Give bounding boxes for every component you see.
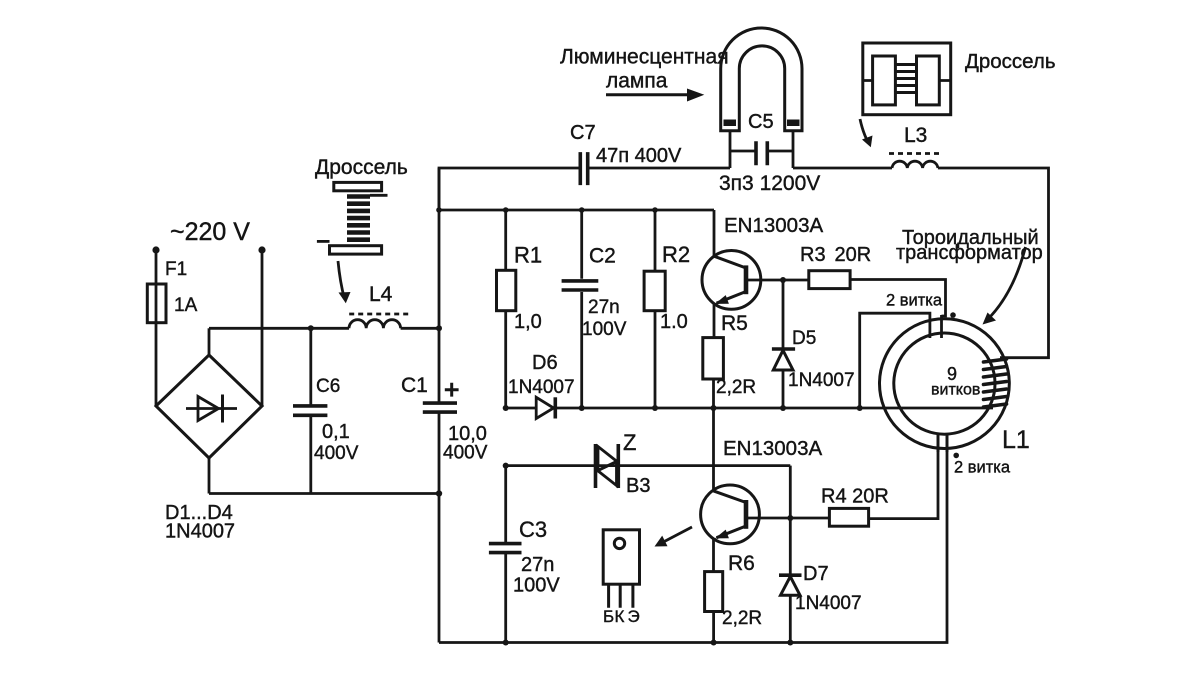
resistor R2: [644, 210, 665, 408]
choke box top right: [863, 43, 951, 115]
diac Z B3: [596, 444, 619, 488]
svg-text:D6: D6: [532, 352, 558, 374]
wire lamp right lead down: [792, 131, 795, 168]
capacitor C3: [489, 466, 522, 643]
svg-text:1,0: 1,0: [514, 311, 542, 333]
transistor Q1: [702, 210, 761, 338]
toroidal transformer ring L1: [880, 319, 1010, 449]
inductor L3: [892, 161, 938, 168]
inductor L4: [349, 320, 401, 329]
svg-text:R2: R2: [662, 242, 690, 267]
wire lamp right to L3: [793, 167, 892, 170]
junction R2 bottom: [652, 405, 658, 411]
svg-text:C6: C6: [316, 376, 340, 397]
toroid top winding 2 turns: [860, 313, 942, 408]
svg-text:Z: Z: [623, 430, 636, 455]
junction L4 rail main column: [436, 325, 442, 331]
node ~220V left terminal: [152, 246, 159, 253]
toroid bottom winding 2 turns: [938, 434, 947, 452]
svg-text:1.0: 1.0: [660, 311, 688, 333]
wire diac rail: [506, 464, 791, 467]
svg-text:C7: C7: [570, 122, 596, 144]
svg-text:Дроссель: Дроссель: [315, 156, 408, 179]
svg-text:F1: F1: [165, 259, 187, 280]
svg-text:C3: C3: [519, 517, 547, 542]
junction R2 top: [652, 207, 658, 213]
lamp electrode right: [787, 120, 800, 127]
junction bridge rail to main column: [436, 490, 442, 496]
svg-text:400V: 400V: [443, 443, 488, 464]
diode inside bridge: [186, 395, 237, 423]
junction C2 bottom: [579, 405, 585, 411]
junction D7 bottom: [787, 640, 793, 646]
main DC column with C1: [438, 168, 441, 643]
svg-text:2,2R: 2,2R: [716, 377, 756, 398]
diode D7: [779, 466, 802, 643]
arrow lamp label: [606, 89, 704, 102]
svg-text:2,2R: 2,2R: [722, 608, 762, 629]
svg-text:L3: L3: [904, 124, 927, 147]
svg-text:1A: 1A: [174, 295, 198, 316]
junction C3 bottom: [503, 640, 509, 646]
svg-text:B3: B3: [626, 475, 650, 497]
wire bridge bottom rail: [209, 492, 439, 495]
wire L4 rail from bridge to L4: [209, 327, 349, 330]
resistor R5: [703, 338, 724, 408]
wire rail2 top distribution: [439, 209, 714, 212]
svg-text:L1: L1: [1002, 426, 1030, 454]
svg-text:R5: R5: [721, 312, 748, 335]
junction rail2: [436, 207, 442, 213]
svg-text:2 витка: 2 витка: [954, 459, 1011, 477]
capacitor C5: [730, 141, 793, 165]
wire lamp left lead down: [729, 131, 732, 168]
junction C2 top: [579, 207, 585, 213]
C1 plus sign: [445, 383, 459, 397]
choke icon bobbin: [317, 182, 388, 254]
wire bridge bottom stub: [208, 458, 211, 494]
svg-text:27n: 27n: [588, 297, 620, 318]
polarity dot top winding: [950, 312, 956, 318]
wire ground bottom rail: [439, 434, 947, 643]
arrow choke box to L3: [860, 119, 873, 147]
polarity dot bottom winding: [953, 453, 959, 459]
svg-text:C5: C5: [748, 111, 774, 133]
svg-text:1N4007: 1N4007: [508, 377, 575, 398]
wire midpoint rail to toroid: [555, 407, 993, 410]
svg-text:100V: 100V: [513, 575, 560, 597]
capacitor C1 plates: [423, 403, 457, 412]
wire bridge top vertex stub to L4 rail: [208, 328, 211, 354]
svg-text:1N4007: 1N4007: [165, 521, 235, 543]
curved arrow to toroid: [983, 247, 1026, 325]
junction diac rail left: [503, 463, 509, 469]
diode D6: [536, 397, 555, 418]
lamp electrode left: [724, 120, 737, 127]
svg-text:лампа: лампа: [606, 70, 668, 93]
svg-text:Э: Э: [628, 607, 640, 626]
svg-text:3п3 1200V: 3п3 1200V: [719, 172, 820, 195]
resistor R1: [497, 210, 516, 408]
bridge rectifier D1...D4 diamond: [156, 355, 262, 458]
wire right input to bridge right vertex: [261, 250, 264, 406]
svg-text:R3 20R: R3 20R: [800, 244, 871, 266]
svg-text:100V: 100V: [582, 319, 627, 340]
svg-text:1N4007: 1N4007: [788, 370, 855, 391]
svg-text:0,1: 0,1: [322, 421, 350, 443]
resistor R6: [705, 572, 723, 643]
wire Q2 base: [746, 517, 790, 520]
wire left input through fuse to bridge left vertex: [155, 250, 158, 406]
junction C6 top: [308, 325, 314, 331]
wire L3 to toroid 9-turn winding: [938, 168, 1049, 358]
svg-text:R1: R1: [514, 243, 542, 268]
svg-text:~220 V: ~220 V: [170, 218, 250, 246]
svg-text:D7: D7: [803, 563, 829, 585]
wire Q1 base: [746, 279, 783, 282]
svg-text:47п 400V: 47п 400V: [596, 145, 682, 167]
svg-text:D5: D5: [792, 328, 816, 349]
junction Q1 base node: [780, 277, 786, 283]
svg-text:К: К: [615, 607, 625, 626]
svg-text:L4: L4: [369, 283, 393, 306]
arrow choke icon to L4: [338, 261, 351, 303]
wire midpoint rail left to D6: [506, 407, 537, 410]
node ~220V right terminal: [258, 246, 265, 253]
transistor Q2: [701, 408, 760, 572]
capacitor C7: [580, 152, 587, 185]
diode D5: [772, 280, 795, 408]
junction R1 top: [503, 207, 509, 213]
capacitor C2: [562, 210, 599, 408]
fluorescent lamp tube: [721, 28, 802, 131]
resistor R3: [783, 271, 946, 316]
fuse F1: [147, 284, 166, 323]
svg-text:EN13003A: EN13003A: [724, 214, 823, 237]
junction R6 bottom: [711, 640, 717, 646]
svg-text:R4 20R: R4 20R: [821, 486, 889, 508]
junction winding return: [857, 405, 863, 411]
svg-text:C1: C1: [401, 374, 428, 397]
svg-text:Дроссель: Дроссель: [965, 50, 1056, 73]
svg-text:Б: Б: [603, 607, 614, 626]
toroid 9-turn winding: [984, 359, 1007, 407]
wire top rail left with corner: [439, 168, 580, 210]
TO-220 package drawing: [603, 530, 639, 608]
L3 core dashed line: [889, 152, 941, 155]
svg-text:Люминесцентная: Люминесцентная: [560, 46, 729, 69]
svg-text:R6: R6: [728, 552, 755, 575]
junction D5 bottom: [780, 405, 786, 411]
L4 core dashed line: [349, 313, 408, 316]
capacitor C6: [293, 328, 327, 493]
arrow Q2 to package: [655, 527, 693, 547]
svg-text:27n: 27n: [521, 554, 554, 576]
svg-text:1N4007: 1N4007: [795, 593, 862, 614]
wire L4 to main column: [401, 327, 439, 330]
wire C7 to lamp left lead: [588, 167, 730, 170]
junction R5 bottom / Q2 collector: [711, 405, 717, 411]
svg-text:C2: C2: [589, 245, 616, 268]
svg-text:400V: 400V: [314, 443, 359, 464]
junction Q2 base node: [787, 515, 793, 521]
svg-text:EN13003A: EN13003A: [723, 437, 822, 460]
svg-text:2 витка: 2 витка: [886, 292, 943, 310]
resistor R4: [790, 434, 938, 526]
svg-text:витков: витков: [931, 382, 980, 399]
junction R1 bottom: [503, 405, 509, 411]
